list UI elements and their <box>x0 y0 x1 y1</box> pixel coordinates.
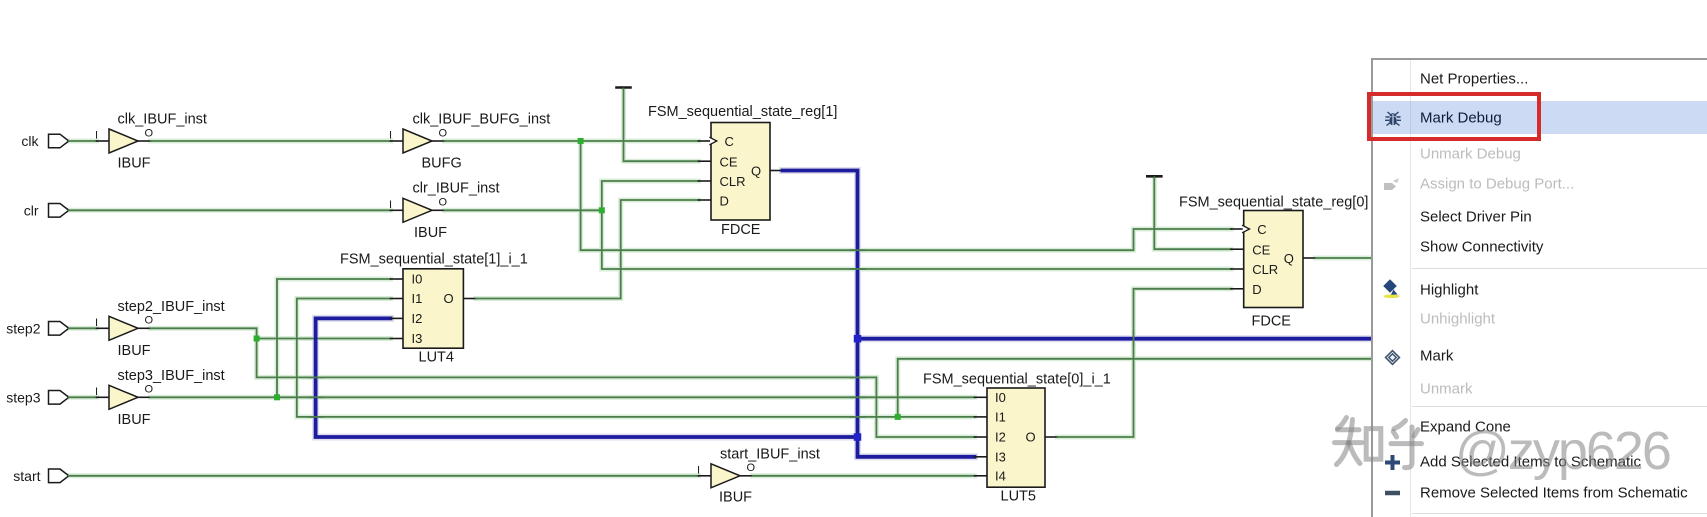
block FDCE FSM_sequential_state_reg[0] <box>1179 195 1368 330</box>
icon assign to debug port (disabled) <box>1383 177 1400 191</box>
menu item Unmark <box>1420 381 1473 398</box>
svg-text:clk_IBUF_inst: clk_IBUF_inst <box>118 112 207 128</box>
svg-text:O: O <box>439 197 448 209</box>
wire clr_IBUF net <box>445 209 602 211</box>
icon highlight <box>1383 279 1400 299</box>
svg-text:I: I <box>697 465 700 477</box>
buffer start_IBUF_inst IBUF <box>697 447 820 506</box>
svg-text:O: O <box>1026 430 1036 445</box>
pin stub LUT4 I3 <box>391 338 404 340</box>
pin stub LUT5 I0 <box>975 396 988 398</box>
menu item Assign to Debug Port... <box>1420 176 1574 193</box>
pin stub step2 IBUF O <box>138 327 151 329</box>
wire blue net Q reg1 trunk <box>783 171 975 457</box>
buffer clr_IBUF_inst IBUF <box>389 181 500 241</box>
pin stub LUT4 I1 <box>391 298 404 300</box>
junction blue J2 <box>854 433 862 441</box>
svg-text:IBUF: IBUF <box>118 412 151 428</box>
pin stub LUT5 I2 <box>975 436 988 438</box>
menu item Add Selected Items to Schematic <box>1420 453 1641 470</box>
wire start port to IBUF <box>69 475 699 477</box>
buffer step2_IBUF_inst IBUF <box>95 299 225 359</box>
menu separator <box>1412 268 1707 269</box>
wire crossings: green over blue <box>309 250 1134 417</box>
wire clk port to IBUF <box>69 140 97 142</box>
wire clk_IBUF net <box>151 140 391 142</box>
wire state0 net to LUT4 I1 <box>297 299 975 417</box>
wire clr to CLR reg1 <box>602 181 699 210</box>
pin stub FDCE1 Q <box>770 170 783 172</box>
svg-text:BUFG: BUFG <box>422 156 462 172</box>
svg-text:IBUF: IBUF <box>118 343 151 359</box>
svg-text:I1: I1 <box>412 291 423 306</box>
wire clk branch to C reg0 <box>581 141 1231 250</box>
icon plus (add) <box>1384 454 1401 471</box>
pin stub step3 IBUF I <box>97 396 110 398</box>
wire step3 port to IBUF <box>69 396 97 398</box>
svg-text:clk: clk <box>21 133 39 149</box>
pin stub LUT4 I0 <box>391 278 404 280</box>
menu icon column separator <box>1410 60 1411 517</box>
svg-text:clr: clr <box>24 202 39 218</box>
power symbol vcc2 <box>1147 175 1161 178</box>
svg-text:I3: I3 <box>412 331 423 346</box>
wire clr port to IBUF <box>69 209 391 211</box>
pin stub step3 IBUF O <box>138 396 151 398</box>
svg-text:step2: step2 <box>6 320 40 336</box>
pin stub FDCE0 Q <box>1303 257 1316 259</box>
pin stub LUT4 I2 <box>391 317 404 319</box>
svg-text:IBUF: IBUF <box>414 225 447 241</box>
menu item Select Driver Pin <box>1420 209 1532 226</box>
block LUT4 FSM_sequential_state[1]_i_1 <box>340 252 528 366</box>
svg-text:start_IBUF_inst: start_IBUF_inst <box>720 447 820 463</box>
svg-text:start: start <box>13 468 40 484</box>
pin stub LUT5 I4 <box>975 475 988 477</box>
power symbol vcc1 <box>617 86 631 89</box>
menu item Show Connectivity <box>1420 239 1543 256</box>
svg-text:C: C <box>1257 222 1266 237</box>
pin stub LUT5 I1 <box>975 416 988 418</box>
svg-text:I1: I1 <box>995 410 1006 425</box>
port start <box>13 468 69 484</box>
svg-text:FSM_sequential_state_reg[1]: FSM_sequential_state_reg[1] <box>648 104 837 120</box>
pin stub LUT5 I3 <box>975 456 988 458</box>
pin stub start IBUF O <box>740 475 753 477</box>
pin stub clk IBUF O <box>138 140 151 142</box>
junction clk net J <box>578 138 584 144</box>
wire Q reg0 net <box>1316 257 1371 259</box>
wire step3_IBUF net <box>151 396 975 398</box>
svg-text:CE: CE <box>1252 242 1270 257</box>
svg-text:O: O <box>444 291 454 306</box>
pin stub BUFG I <box>391 140 404 142</box>
wire state0 net east <box>898 359 1371 417</box>
svg-text:O: O <box>439 127 448 139</box>
menu item Mark <box>1420 347 1453 364</box>
svg-text:CLR: CLR <box>1252 262 1278 277</box>
pin stub LUT4 O <box>463 298 476 300</box>
svg-text:step2_IBUF_inst: step2_IBUF_inst <box>118 299 225 315</box>
pin stub FDCE0 CLR <box>1231 268 1244 270</box>
svg-text:I: I <box>95 130 98 142</box>
junction clr net J <box>599 207 605 213</box>
wire clk_IBUF_BUFG net to C reg1 <box>445 140 699 142</box>
svg-text:FSM_sequential_state[1]_i_1: FSM_sequential_state[1]_i_1 <box>340 252 528 268</box>
wire step3 branch to LUT4 I0 <box>277 279 391 397</box>
svg-text:C: C <box>725 134 734 149</box>
svg-text:I4: I4 <box>995 469 1006 484</box>
pin stub FDCE1 CE <box>699 160 712 162</box>
pin stub FDCE0 C <box>1231 228 1244 230</box>
junction state0 net J <box>895 414 901 420</box>
wire LUT4 O to D reg1 <box>476 200 699 299</box>
menu item Unmark Debug <box>1420 146 1521 163</box>
menu item Remove Selected Items from Schematic <box>1420 485 1688 502</box>
menu item Mark Debug <box>1420 109 1502 126</box>
port step2 <box>6 320 69 336</box>
wire start_IBUF net <box>753 475 975 477</box>
icon minus (remove) <box>1384 486 1401 500</box>
pin stub clk IBUF I <box>97 140 110 142</box>
menu highlight row Mark Debug <box>1373 101 1707 134</box>
svg-text:IBUF: IBUF <box>118 156 151 172</box>
svg-text:FDCE: FDCE <box>721 222 761 238</box>
svg-text:Q: Q <box>1284 251 1294 266</box>
wire step2_IBUF net <box>151 328 975 437</box>
svg-text:step3_IBUF_inst: step3_IBUF_inst <box>118 368 225 384</box>
watermark zhihu logo glyphs <box>1330 410 1430 475</box>
svg-text:clk_IBUF_BUFG_inst: clk_IBUF_BUFG_inst <box>413 112 551 128</box>
port clr <box>24 202 69 218</box>
menu item Highlight <box>1420 281 1478 298</box>
svg-text:O: O <box>145 315 154 327</box>
svg-text:I: I <box>389 199 392 211</box>
svg-text:D: D <box>1252 282 1261 297</box>
wire blue net east branch <box>858 337 1371 341</box>
svg-text:FSM_sequential_state[0]_i_1: FSM_sequential_state[0]_i_1 <box>923 372 1111 388</box>
svg-text:O: O <box>747 462 756 474</box>
icon bug (Mark Debug) <box>1384 111 1402 128</box>
svg-text:I2: I2 <box>412 311 423 326</box>
context menu panel <box>1371 58 1707 517</box>
wire LUT5 O to D reg0 <box>1058 289 1232 437</box>
svg-text:clr_IBUF_inst: clr_IBUF_inst <box>413 181 500 197</box>
pin stub clr IBUF O <box>432 209 445 211</box>
svg-text:I0: I0 <box>995 390 1006 405</box>
pin stub LUT5 O <box>1045 436 1058 438</box>
pin stub FDCE1 C <box>699 140 712 142</box>
buffer step3_IBUF_inst IBUF <box>95 368 225 428</box>
wire blue net to LUT4 I2 <box>316 318 858 437</box>
svg-text:LUT5: LUT5 <box>1001 489 1036 505</box>
wire step2 port to IBUF <box>69 327 97 329</box>
red annotation box around Mark Debug <box>1367 92 1542 141</box>
svg-text:O: O <box>145 384 154 396</box>
wire glow underlay <box>69 89 1371 476</box>
svg-text:I: I <box>389 130 392 142</box>
buffer clk_IBUF_BUFG_inst BUFG <box>389 112 550 172</box>
port clk <box>21 133 68 149</box>
svg-text:FSM_sequential_state_reg[0]: FSM_sequential_state_reg[0] <box>1179 195 1368 211</box>
icon mark diamond <box>1384 349 1401 366</box>
menu item Expand Cone <box>1420 419 1511 436</box>
svg-text:I3: I3 <box>995 450 1006 465</box>
pin stub clr IBUF I <box>391 209 404 211</box>
svg-text:IBUF: IBUF <box>719 490 752 506</box>
port step3 <box>6 389 69 405</box>
pin stub FDCE0 CE <box>1231 248 1244 250</box>
svg-text:CE: CE <box>720 155 738 170</box>
svg-text:I: I <box>95 317 98 329</box>
svg-text:LUT4: LUT4 <box>419 350 454 366</box>
svg-text:FDCE: FDCE <box>1252 314 1292 330</box>
menu item Unhighlight <box>1420 311 1495 328</box>
pin stub start IBUF I <box>699 475 712 477</box>
pin stub BUFG O <box>432 140 445 142</box>
svg-text:I2: I2 <box>995 430 1006 445</box>
svg-text:Q: Q <box>751 164 761 179</box>
menu item Net Properties... <box>1420 71 1528 88</box>
junction blue J1 <box>854 335 862 343</box>
pin stub FDCE1 D <box>699 199 712 201</box>
buffer clk_IBUF_inst IBUF <box>95 112 207 172</box>
block FDCE FSM_sequential_state_reg[1] <box>648 104 837 238</box>
svg-text:D: D <box>720 194 729 209</box>
block LUT5 FSM_sequential_state[0]_i_1 <box>923 372 1111 505</box>
svg-text:CLR: CLR <box>720 174 746 189</box>
wire step2 branch to LUT4 I3 <box>257 338 391 340</box>
wire const1 to CE reg1 <box>624 89 699 162</box>
menu separator <box>1412 406 1707 407</box>
svg-text:O: O <box>145 127 154 139</box>
svg-text:step3: step3 <box>6 389 40 405</box>
svg-text:I: I <box>95 386 98 398</box>
svg-text:I0: I0 <box>412 272 423 287</box>
junction step2 net J <box>254 336 260 342</box>
wire const1 to CE reg0 <box>1154 177 1231 249</box>
pin stub FDCE1 CLR <box>699 180 712 182</box>
pin stub FDCE0 D <box>1231 288 1244 290</box>
pin stub step2 IBUF I <box>97 327 110 329</box>
menu separator <box>1412 513 1707 514</box>
junction step3 net J <box>274 394 280 400</box>
wire clr to CLR reg0 <box>602 210 1231 269</box>
